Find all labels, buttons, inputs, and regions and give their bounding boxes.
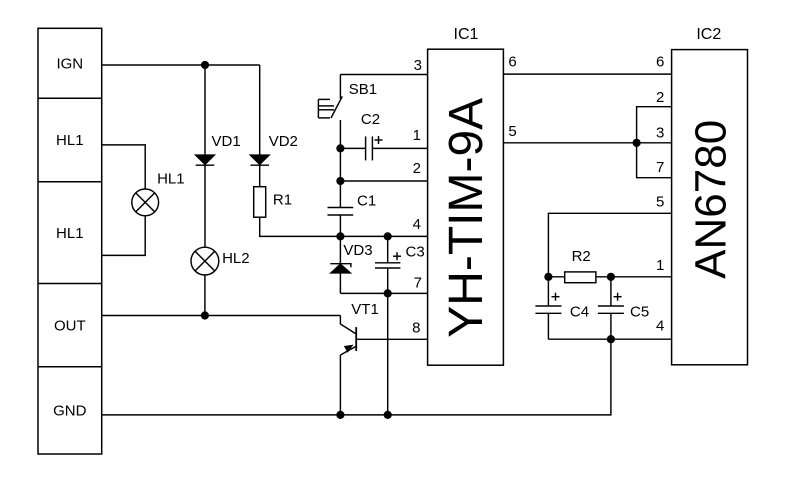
svg-text:YH-TIM-9A: YH-TIM-9A	[440, 98, 493, 338]
wire IC1 pin6 to IC2 pin6	[503, 73, 671, 75]
node IC2 pin3	[633, 139, 641, 147]
wire GND rail	[102, 339, 611, 415]
lamp HL1	[132, 189, 159, 216]
svg-text:2: 2	[413, 160, 421, 177]
wire IC1 pin3	[340, 74, 427, 76]
node HL2/OUT	[201, 311, 209, 319]
wire HL1 bottom	[102, 216, 146, 256]
svg-text:HL1: HL1	[56, 132, 84, 149]
svg-text:1: 1	[413, 127, 421, 144]
svg-text:R1: R1	[273, 191, 292, 208]
lamp HL2	[191, 247, 219, 275]
svg-text:C1: C1	[357, 192, 376, 209]
node C5 bottom	[607, 335, 615, 343]
wire HL2 to OUT	[204, 275, 206, 316]
wire VD1 to HL2	[204, 165, 206, 247]
capacitor C2	[340, 136, 427, 160]
IC chip IC1	[428, 49, 504, 365]
svg-text:VD3: VD3	[343, 242, 372, 259]
wire R2 right to IC2 pin1	[596, 276, 672, 278]
node VT1 emitter GND	[336, 411, 344, 419]
svg-text:IC2: IC2	[696, 26, 721, 43]
capacitor C4	[535, 277, 561, 339]
node R2 right	[607, 273, 615, 281]
wire R1 to pin4 rail	[260, 217, 428, 236]
node C3 GND	[384, 411, 392, 419]
node VD3/C3 pin7	[384, 289, 392, 297]
svg-text:6: 6	[656, 54, 664, 71]
wire SB1/C2 to C1	[339, 148, 341, 207]
svg-text:IC1: IC1	[454, 26, 479, 43]
svg-text:4: 4	[656, 318, 664, 335]
connector divider 3	[38, 283, 102, 285]
capacitor C5	[598, 277, 624, 339]
connector X1 body	[38, 28, 102, 454]
wire R2 left	[548, 276, 564, 278]
diode VD3	[330, 236, 351, 293]
svg-text:7: 7	[414, 275, 422, 292]
svg-text:C5: C5	[630, 304, 649, 321]
svg-text:AN6780: AN6780	[687, 120, 736, 279]
capacitor C1	[328, 208, 354, 237]
svg-text:HL1: HL1	[56, 225, 84, 242]
svg-text:IGN: IGN	[56, 55, 83, 72]
wire IGN to VD2	[102, 64, 260, 66]
wire IC2 pin4	[548, 338, 671, 340]
capacitor C3	[375, 236, 401, 415]
IC chip IC2	[672, 50, 748, 365]
svg-text:C3: C3	[406, 244, 425, 261]
svg-text:7: 7	[656, 159, 664, 176]
connector divider 2	[38, 181, 102, 183]
svg-text:8: 8	[412, 320, 420, 337]
svg-text:5: 5	[508, 123, 516, 140]
svg-text:R2: R2	[572, 248, 591, 265]
svg-text:GND: GND	[53, 403, 87, 420]
transistor VT1	[340, 316, 356, 415]
svg-text:2: 2	[656, 89, 664, 106]
wire IC1 pin8	[356, 338, 427, 340]
wire IC1 pin7	[340, 292, 427, 294]
node C1/VD3 pin4 rail	[336, 232, 344, 240]
resistor R2	[565, 272, 596, 283]
wire HL1 top	[102, 145, 146, 189]
pushbutton SB1	[318, 75, 342, 149]
svg-text:OUT: OUT	[54, 317, 86, 334]
svg-text:3: 3	[656, 125, 664, 142]
connector divider 1	[38, 97, 102, 99]
svg-text:HL1: HL1	[157, 170, 185, 187]
diode VD1	[196, 155, 215, 165]
svg-text:VD1: VD1	[212, 133, 241, 150]
wire IC1 pin5 to IC2 pin3	[503, 142, 671, 144]
svg-text:VD2: VD2	[269, 133, 298, 150]
resistor R1	[254, 187, 266, 218]
wire VD1 anode drop	[204, 65, 206, 155]
svg-text:5: 5	[656, 194, 664, 211]
wire IC2 pin5	[548, 213, 671, 276]
diode VD2	[250, 155, 269, 165]
wire VD2 to R1	[259, 165, 261, 187]
connector divider 4	[38, 366, 102, 368]
node pin2 rail	[336, 177, 344, 185]
svg-text:VT1: VT1	[351, 301, 379, 318]
wire IC2 pins 2-3-7 bracket	[637, 107, 672, 178]
svg-text:1: 1	[656, 257, 664, 274]
svg-text:SB1: SB1	[349, 81, 377, 98]
wire VD2 anode drop	[259, 65, 261, 155]
wire IC1 pin2	[340, 180, 427, 182]
node R2 left	[544, 273, 552, 281]
svg-text:4: 4	[413, 216, 421, 233]
node C3 top	[384, 232, 392, 240]
node C2/SB1	[336, 144, 344, 152]
svg-text:6: 6	[508, 54, 516, 71]
svg-text:C4: C4	[570, 304, 589, 321]
wire OUT	[102, 315, 341, 317]
node IGN/VD1	[201, 61, 209, 69]
svg-text:3: 3	[414, 57, 422, 74]
svg-text:C2: C2	[361, 111, 380, 128]
svg-text:HL2: HL2	[222, 250, 250, 267]
